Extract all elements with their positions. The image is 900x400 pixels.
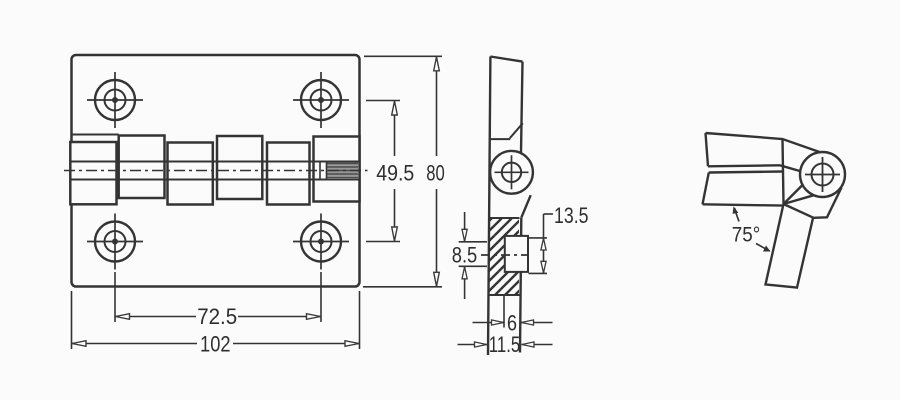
neck tangent 1 (784, 185, 803, 204)
knuckle K3 (168, 143, 213, 205)
knuckle crosshair (495, 171, 529, 173)
pin end left boundary (326, 162, 328, 180)
section hatch upper (489, 218, 519, 236)
knuckle K4 (217, 136, 262, 199)
svg-text:75°: 75° (732, 224, 761, 247)
leaf right edge lower (520, 218, 521, 353)
hole bottom-right (293, 214, 349, 270)
knuckle K2 (119, 136, 165, 199)
right tangent (814, 188, 842, 218)
upper leaf end face (783, 139, 784, 204)
hinge axis centerline (64, 170, 368, 172)
lower bar left end (703, 173, 709, 205)
chamfer (510, 123, 523, 138)
knuckle shoulder (490, 138, 511, 140)
left tangent to knuckle (780, 165, 802, 171)
notch line above knuckle 1 (72, 134, 119, 136)
hinge plate outline (72, 55, 360, 287)
section boundary bottom (488, 294, 520, 296)
svg-text:49.5: 49.5 (376, 161, 414, 186)
knuckle circle open view (800, 152, 845, 197)
pin block (505, 236, 528, 272)
neck tangent 2 (784, 195, 815, 204)
upper leaf bottom edge (708, 165, 780, 166)
svg-text:72.5: 72.5 (197, 304, 237, 329)
svg-text:13.5: 13.5 (554, 203, 589, 228)
upper leaf left end (706, 133, 709, 166)
pin axis centerline (481, 254, 529, 256)
lower leaf (766, 204, 814, 288)
lower bar bottom edge (703, 204, 784, 205)
dimension 13.5 (529, 214, 554, 273)
dimension 11.5 (458, 344, 553, 346)
angle arrow upper (735, 208, 740, 222)
svg-text:8.5: 8.5 (452, 243, 478, 268)
leaf top edge (490, 57, 522, 62)
svg-text:80: 80 (426, 161, 445, 186)
knuckle K6 (314, 137, 360, 202)
knuckle K5 (267, 143, 310, 205)
section hatch sliver (489, 236, 504, 272)
hole top-left (87, 72, 143, 128)
lower bar top edge (709, 172, 782, 173)
dimension 80 (363, 56, 442, 286)
pin barrel line bottom (70, 179, 359, 181)
serrated pin end (327, 163, 359, 180)
dimension 102 (72, 291, 360, 349)
pin barrel line top (70, 161, 359, 163)
dimension 49.5 (366, 101, 400, 242)
upper leaf top edge (706, 133, 822, 153)
pin extension line (503, 295, 505, 328)
leaf left edge (488, 57, 490, 356)
knuckle K1 (70, 142, 116, 204)
hole top-right (293, 72, 349, 128)
knuckle circle (490, 151, 533, 194)
section boundary top (488, 217, 520, 219)
lower-right tangent (521, 195, 530, 218)
dimension 6 (473, 322, 553, 324)
angle arrow lower (756, 244, 770, 252)
dimension 72.5 (115, 272, 321, 322)
neck to lower leaf corner (784, 204, 814, 218)
leaf right edge upper (521, 62, 523, 153)
hole bottom-left (87, 214, 143, 270)
knuckle crosshair open view (805, 174, 840, 176)
pin shoulder tick (319, 162, 321, 180)
svg-text:11.5: 11.5 (489, 332, 521, 357)
svg-text:102: 102 (200, 332, 231, 357)
section hatch lower (489, 272, 519, 295)
dimension 8.5 (459, 212, 487, 299)
